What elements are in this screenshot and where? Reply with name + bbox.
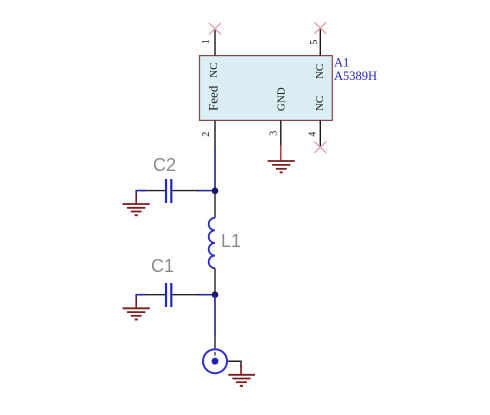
port P1 center dot — [212, 358, 219, 365]
pin 2 — [214, 120, 216, 147]
svg-text:NC: NC — [314, 96, 326, 111]
pin 1 — [214, 29, 216, 56]
ground at C2 — [123, 193, 150, 215]
ground stem at port — [240, 365, 242, 375]
junction node2 — [212, 291, 219, 298]
capacitor C1 right lead — [173, 294, 199, 296]
wire C2 branch right (node1 side) — [197, 190, 212, 192]
port inner dash — [214, 352, 216, 356]
svg-text:A1: A1 — [334, 56, 349, 70]
pin 4 — [319, 120, 321, 146]
svg-text:C1: C1 — [151, 256, 174, 276]
capacitor C1 plates — [165, 283, 167, 307]
svg-text:C2: C2 — [153, 155, 176, 175]
capacitor C2 left lead — [141, 190, 165, 192]
junction node1 — [212, 188, 219, 195]
svg-text:Feed: Feed — [206, 85, 221, 111]
svg-text:4: 4 — [307, 132, 318, 137]
svg-text:A5389H: A5389H — [334, 69, 377, 83]
inductor L1 coils — [209, 218, 215, 268]
no-ERC X on pin 4 — [314, 142, 326, 154]
pin 3 — [280, 120, 282, 146]
wire C1 left stub — [136, 295, 146, 297]
wire node2 to port — [214, 295, 216, 336]
inductor L1 bottom lead — [214, 268, 216, 295]
svg-text:GND: GND — [275, 87, 287, 111]
svg-text:NC: NC — [314, 64, 326, 79]
wire C2 left stub — [136, 191, 146, 193]
svg-text:NC: NC — [208, 63, 220, 78]
capacitor C1 left lead — [141, 294, 165, 296]
pin 5 — [319, 28, 321, 56]
no-ERC X on pin 1 — [209, 23, 221, 35]
svg-text:1: 1 — [201, 39, 212, 44]
IC A1 body — [200, 56, 333, 121]
wire pin2 to node1 — [214, 148, 216, 191]
svg-text:L1: L1 — [221, 231, 241, 251]
svg-text:2: 2 — [201, 132, 212, 137]
ground at C1 — [123, 297, 150, 320]
inductor L1 top lead — [214, 191, 216, 218]
ground at pin 3 — [268, 145, 295, 172]
port P1 ring — [203, 349, 227, 373]
svg-text:3: 3 — [268, 131, 279, 136]
svg-text:5: 5 — [309, 40, 320, 45]
capacitor C2 right lead — [173, 190, 199, 192]
wire C1 branch right (node2 side) — [197, 294, 212, 296]
no-ERC X on pin 5 — [314, 22, 326, 34]
ground at port — [228, 375, 255, 386]
port pin lead — [214, 335, 216, 348]
capacitor C2 plates — [165, 179, 167, 203]
wire port to ground — [228, 361, 241, 368]
